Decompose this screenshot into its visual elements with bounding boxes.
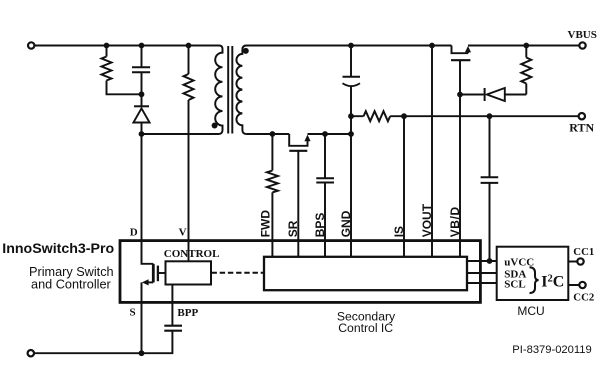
svg-text:D: D: [130, 226, 138, 238]
svg-text:RTN: RTN: [569, 121, 594, 135]
svg-text:BPS: BPS: [313, 213, 327, 238]
svg-text:VBUS: VBUS: [568, 29, 597, 41]
svg-text:Control IC: Control IC: [338, 321, 393, 335]
svg-text:InnoSwitch3-Pro: InnoSwitch3-Pro: [2, 241, 114, 257]
svg-text:and Controller: and Controller: [31, 277, 111, 291]
svg-text:SCL: SCL: [504, 278, 525, 290]
svg-text:CONTROL: CONTROL: [164, 248, 220, 260]
svg-text:GND: GND: [339, 210, 353, 237]
svg-text:VB/D: VB/D: [448, 206, 462, 237]
svg-text:VOUT: VOUT: [420, 203, 434, 237]
svg-text:SR: SR: [286, 220, 300, 237]
svg-text:CC2: CC2: [573, 292, 594, 304]
svg-text:FWD: FWD: [259, 210, 273, 238]
svg-text:CC1: CC1: [573, 246, 594, 258]
svg-text:V: V: [179, 226, 187, 238]
svg-text:IS: IS: [392, 226, 406, 237]
svg-text:PI-8379-020119: PI-8379-020119: [512, 344, 591, 356]
svg-text:I2C: I2C: [541, 274, 564, 291]
svg-text:BPP: BPP: [177, 307, 198, 319]
svg-text:MCU: MCU: [517, 304, 544, 318]
svg-text:S: S: [130, 307, 136, 319]
